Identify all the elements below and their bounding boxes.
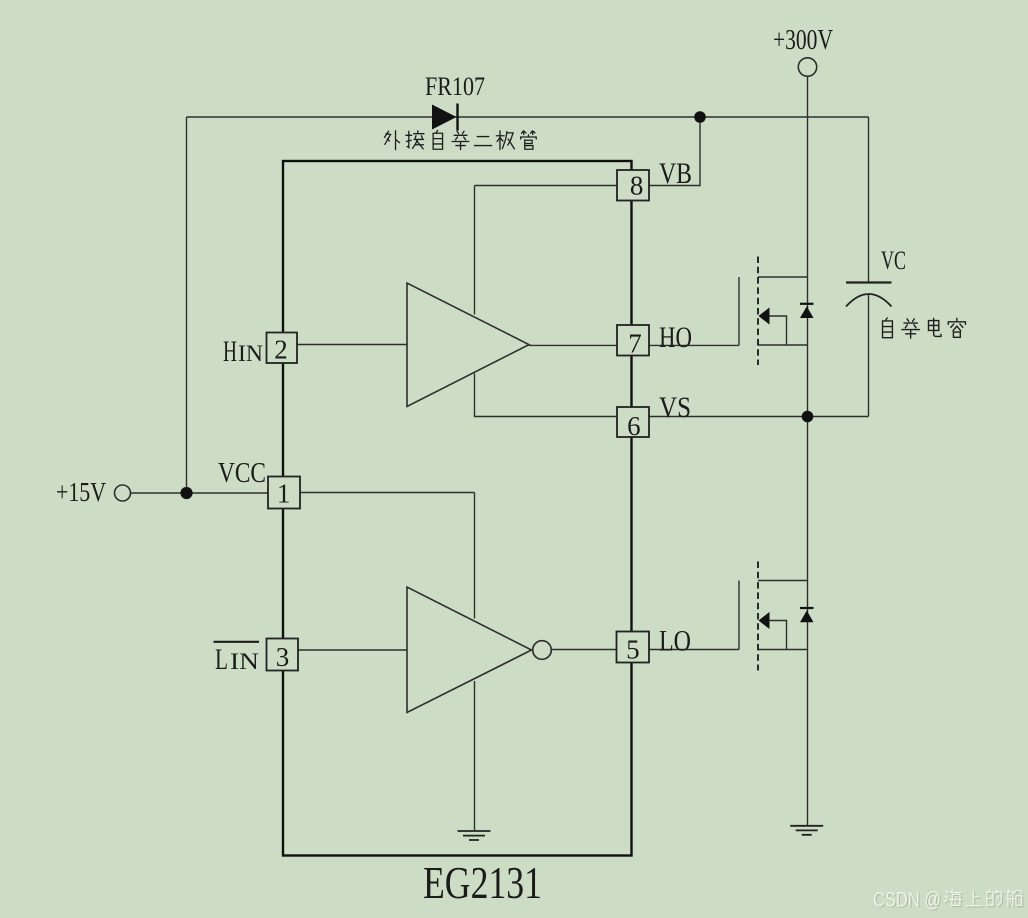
junction dot at VS node: [802, 411, 814, 423]
svg-text:8: 8: [630, 170, 644, 200]
diode body D3 of Q2: [800, 608, 814, 622]
wire HIN to upper amp input: [297, 344, 407, 346]
wire HO to upper mosfet gate: [649, 277, 739, 345]
label VCC: [218, 457, 266, 489]
terminal +15V: [115, 485, 131, 501]
terminal +300V: [798, 58, 816, 76]
wire VCC rail below lower amp to ground: [474, 681, 476, 830]
wire LIN to lower amp input: [298, 649, 407, 651]
label FR107: [425, 72, 485, 101]
svg-text:CSDN @: CSDN @: [873, 889, 941, 912]
wire +300V bus: [807, 77, 809, 826]
capacitor C1 VC bootstrap: [846, 283, 892, 307]
op-amp inverter A2 (low side): [407, 587, 551, 713]
pin 7 box: [617, 325, 649, 359]
label +15V: [56, 477, 106, 507]
label LIN (active low): [214, 642, 260, 676]
svg-text:+300V: +300V: [773, 25, 833, 56]
svg-text:EG2131: EG2131: [423, 857, 542, 908]
svg-text:IN: IN: [230, 649, 259, 674]
wire upper amp output to pin7: [529, 344, 617, 346]
op-amp buffer A1 (high side): [407, 283, 529, 407]
svg-text:VS: VS: [659, 391, 691, 424]
svg-text:+15V: +15V: [56, 477, 106, 507]
watermark CSDN: [873, 889, 1023, 913]
wire lower mosfet body link: [770, 621, 787, 650]
wire VB internal rail to upper amp: [474, 186, 476, 315]
transistor Q2 low-side mosfet channel: [758, 562, 770, 671]
svg-text:5: 5: [626, 635, 640, 665]
svg-text:VB: VB: [659, 157, 692, 190]
diode body D2 of Q1: [800, 304, 814, 318]
pin 5 box: [617, 632, 650, 665]
wire upper amp to VS node: [475, 374, 618, 417]
wire upper mosfet drain stub: [758, 276, 808, 278]
svg-text:H: H: [223, 335, 237, 368]
svg-text:HO: HO: [659, 321, 692, 354]
svg-text:IN: IN: [238, 341, 263, 366]
pin 6 box: [617, 407, 649, 441]
wire lower mosfet drain stub: [758, 580, 808, 582]
wire top bootstrap rail: [187, 116, 869, 118]
svg-text:LO: LO: [659, 625, 691, 658]
label bootstrap capacitor chinese caption: [883, 318, 966, 338]
label +300V: [773, 25, 833, 56]
label VB: [659, 157, 692, 190]
wire +15V lead to pin 1: [131, 492, 269, 494]
svg-text:1: 1: [277, 479, 291, 509]
svg-text:FR107: FR107: [425, 72, 485, 101]
svg-text:VCC: VCC: [218, 457, 266, 489]
wire capacitor branch top: [868, 117, 870, 283]
transistor Q1 high-side mosfet channel: [758, 257, 770, 366]
wire VCC rail down to ground (above lower amp): [474, 493, 476, 619]
svg-text:L: L: [215, 643, 228, 676]
pin 2 box: [267, 333, 298, 365]
svg-text:3: 3: [276, 642, 290, 672]
label bootstrap diode chinese caption: [384, 130, 536, 149]
junction dot at VB rail: [694, 111, 706, 123]
wire upper mosfet source stub: [758, 344, 808, 346]
label HIN: [223, 335, 263, 368]
wire LO to lower mosfet gate: [649, 581, 739, 650]
wire lower amp output to pin5: [552, 649, 617, 651]
label VS: [659, 391, 691, 424]
junction dot at VCC node: [180, 487, 192, 499]
wire left vertical from +15V to diode anode: [186, 117, 188, 493]
wire pin8 left to internal rail: [475, 185, 618, 187]
label HO: [659, 321, 692, 354]
label EG2131: [423, 857, 542, 908]
svg-text:2: 2: [274, 334, 288, 364]
svg-text:7: 7: [628, 329, 642, 359]
wire pin8 right up to top rail: [649, 117, 700, 186]
label VC: [881, 246, 906, 275]
pin 8 box: [617, 170, 649, 201]
ground (IC logic): [458, 831, 491, 840]
pin 3 box: [267, 639, 299, 673]
IC U1 EG2131 outline: [283, 161, 632, 856]
wire lower mosfet source stub: [758, 649, 808, 651]
pin 1 box: [268, 477, 300, 509]
wire VS from pin6 to mosfet midpoint and cap: [649, 416, 869, 418]
wire pin1 to VCC rail: [300, 492, 475, 494]
wire upper mosfet body link: [770, 316, 787, 345]
svg-text:6: 6: [627, 411, 641, 441]
label LO: [659, 625, 691, 658]
svg-text:VC: VC: [881, 246, 906, 275]
wire capacitor branch bottom: [868, 295, 870, 417]
ground (power): [790, 826, 823, 835]
diode D1 FR107: [432, 104, 458, 131]
